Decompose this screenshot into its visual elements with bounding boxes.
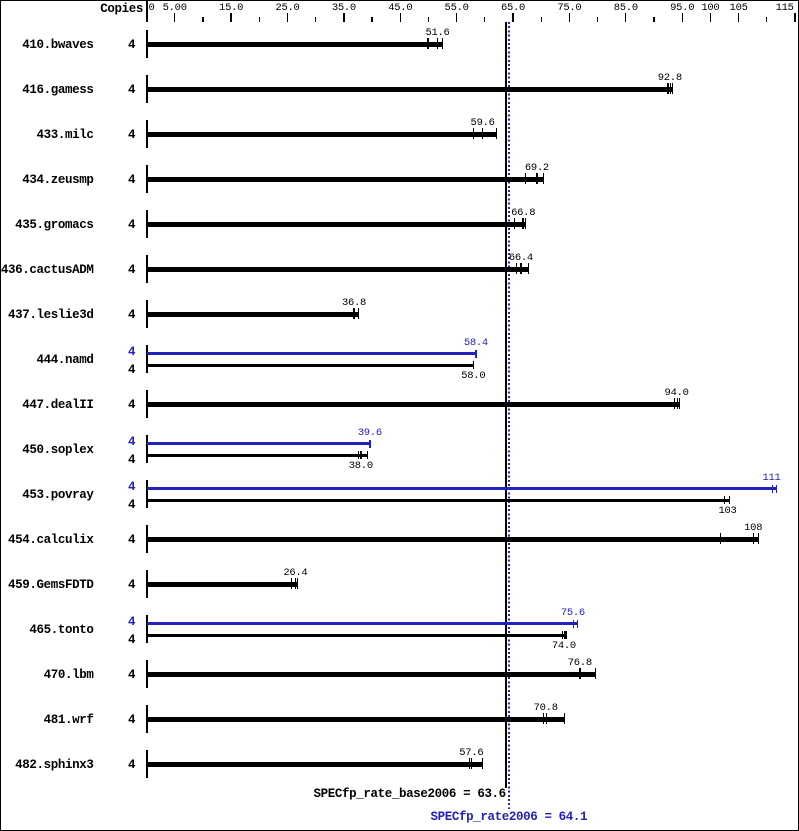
row 450.soplex (22, 444, 93, 456)
peak summary text (431, 811, 588, 823)
peak result reference line 64.1 dotted (508, 22, 510, 809)
row 454.calculix (8, 534, 93, 546)
row 459.GemsFDTD (8, 579, 93, 591)
row 410.bwaves (22, 39, 93, 51)
base result reference line 63.6 (505, 22, 507, 788)
axis scale labels (149, 3, 155, 13)
row 444.namd (37, 354, 94, 366)
row 436.cactusADM (1, 264, 94, 276)
row 447.dealII (22, 399, 93, 411)
row 482.sphinx3 (15, 759, 93, 771)
row 416.gamess (22, 84, 93, 96)
row 470.lbm (44, 669, 94, 681)
column header Copies (100, 3, 143, 15)
row 465.tonto (29, 624, 93, 636)
row 453.povray (22, 489, 93, 501)
row 481.wrf (44, 714, 94, 726)
row 434.zeusmp (22, 174, 93, 186)
row 435.gromacs (15, 219, 93, 231)
axis separator line (146, 0, 148, 22)
base summary text (314, 788, 506, 800)
row 433.milc (37, 129, 94, 141)
axis tick marks (174, 13, 175, 22)
row 437.leslie3d (8, 309, 93, 321)
